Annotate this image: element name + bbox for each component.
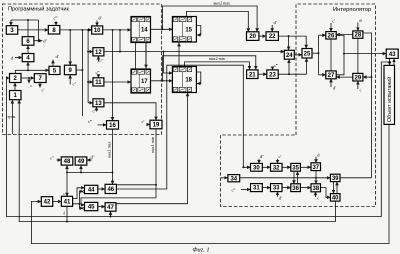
wire: block 35 to block 37 — [300, 166, 311, 168]
block 12 — [93, 48, 104, 56]
block 21 — [247, 70, 258, 79]
wire: d' input into block 27 bottom — [330, 79, 332, 87]
svg-text:13: 13 — [95, 101, 102, 107]
wire: d' input into block 10 top — [96, 21, 98, 26]
block 19 — [150, 120, 162, 129]
svg-text:17: 17 — [141, 79, 148, 85]
junctions on vertical bus — [81, 29, 89, 83]
svg-text:12: 12 — [95, 50, 102, 56]
svg-text:вых2 max: вых2 max — [214, 0, 230, 5]
block 6 — [22, 37, 34, 46]
wire: c'' input into block 9 bottom — [69, 75, 71, 85]
svg-text:c: c — [63, 192, 65, 196]
block 2 — [10, 74, 22, 83]
junction of 37 riser on 34-39 line — [315, 177, 317, 179]
wire: пуск input into block 1 — [11, 100, 13, 134]
wire: block 32 to block 35 — [282, 166, 291, 168]
svg-text:d: d — [359, 18, 362, 23]
svg-text:11: 11 — [95, 80, 102, 86]
svg-text:26: 26 — [328, 33, 335, 39]
wire: block 44 to block 46 — [98, 188, 105, 190]
block 7 — [34, 74, 46, 83]
wire: c''' input into block 31 left — [241, 189, 251, 191]
block 47 — [105, 203, 116, 212]
junction on вых1 min line — [155, 184, 157, 186]
svg-text:c‴: c‴ — [274, 63, 278, 68]
wire: d' output stub up from block 5 top — [52, 60, 54, 67]
svg-text:пуск: пуск — [6, 114, 16, 119]
wire: feedback from Объект испытаний bottom along y=243.5 to block 42 — [31, 125, 389, 244]
block 43 — [386, 49, 398, 58]
block 3 — [6, 26, 17, 35]
wire: vertical link between blocks 26 and 27 — [330, 39, 332, 71]
wire: blocks 26/27 merge to block 43 — [336, 35, 386, 75]
dashed enclosure: Программный задатчик (program setter unit) — [3, 4, 162, 135]
svg-text:Программный задатчик: Программный задатчик — [8, 6, 70, 13]
Объект испытаний box — [384, 65, 395, 124]
wire: block 21 to block 23 — [258, 73, 267, 75]
counter block 15 — [172, 17, 196, 43]
wire: d input into block 4 — [15, 57, 22, 59]
wire: block 2 up to bus and into block 5 — [15, 62, 49, 74]
wire: block 18 right self-loop — [196, 72, 200, 84]
svg-text:23: 23 — [269, 72, 276, 78]
wire: d' input into block 22 top — [271, 25, 273, 32]
block 28 — [353, 31, 363, 39]
wire: block 24 to block 25 — [294, 54, 302, 56]
svg-text:48: 48 — [64, 159, 71, 165]
wire: вых2 min lower line from block 18 top port into block 21 top — [185, 62, 250, 70]
svg-text:38: 38 — [312, 186, 319, 192]
svg-text:44: 44 — [88, 188, 95, 194]
block 32 — [271, 163, 283, 171]
svg-text:18: 18 — [185, 78, 192, 84]
svg-text:d': d' — [98, 16, 101, 21]
svg-text:Фиг. 1: Фиг. 1 — [192, 247, 209, 254]
svg-text:32: 32 — [273, 165, 280, 171]
svg-text:10: 10 — [94, 28, 101, 34]
svg-text:39: 39 — [332, 176, 339, 182]
wire: block 14 to block 15 — [151, 28, 173, 30]
wire: block 38 to block 40 — [321, 188, 331, 198]
wire: c' input into block 26 top — [330, 23, 332, 32]
wire: c'' input into block 13 bottom — [96, 107, 98, 112]
wire: block 30 to block 32 — [262, 166, 270, 168]
wire: c''' input into block 8 top — [55, 21, 57, 25]
svg-text:вых1 min: вых1 min — [150, 137, 155, 153]
svg-text:d': d' — [274, 20, 277, 25]
wire: d' input into block 33 bottom — [277, 192, 279, 197]
junctions on block 6 top loop — [27, 19, 39, 42]
svg-text:d: d — [11, 56, 14, 61]
wire: block 4 to block 6 — [27, 46, 29, 54]
svg-text:d': d' — [279, 195, 282, 200]
svg-text:47: 47 — [107, 205, 114, 211]
wire: block 15 right self-loop — [196, 26, 200, 36]
svg-text:d": d" — [91, 155, 95, 160]
svg-text:c': c' — [332, 19, 335, 24]
wire: c'' input into block 12 bottom — [97, 56, 99, 62]
wire: block 6 top loop to block 3 and d'' output — [11, 20, 42, 41]
wire: block 3 to block 8 — [18, 29, 49, 31]
junctions on link wire — [119, 29, 121, 53]
junction of 41 riser on feedback — [66, 221, 68, 223]
svg-text:41: 41 — [64, 199, 71, 205]
svg-text:33: 33 — [273, 186, 280, 192]
svg-text:30: 30 — [253, 165, 260, 171]
wire: block 31 to block 33 — [262, 187, 270, 189]
block 10 — [92, 26, 103, 34]
svg-text:40: 40 — [332, 195, 339, 201]
svg-text:34: 34 — [230, 176, 237, 182]
svg-text:31: 31 — [253, 186, 260, 192]
svg-text:35: 35 — [292, 165, 299, 171]
svg-text:c': c' — [142, 119, 145, 124]
wire: block 20 to block 22 — [259, 35, 266, 37]
wire: d input into block 37 top — [315, 157, 317, 163]
wire: feedback riser into block 42 handled; block 42 to block 41 — [53, 201, 62, 203]
wire: input into block 34 left — [221, 177, 228, 179]
wire: block 1 to block 2 — [14, 83, 16, 91]
wire: block 34 to block 39 — [240, 177, 331, 179]
svg-text:d': d' — [333, 86, 336, 91]
block 8 — [48, 26, 60, 35]
block 9 — [64, 65, 76, 75]
svg-text:29: 29 — [355, 75, 362, 81]
svg-text:Интерполятор: Интерполятор — [333, 7, 371, 13]
wire: block 17 to block 18 — [151, 80, 173, 82]
svg-text:d: d — [317, 152, 320, 157]
wire: вых1 min from block 19 down to block 45 input — [81, 129, 156, 205]
block 26 — [326, 32, 336, 40]
block 11 — [93, 78, 104, 86]
block 45 — [85, 202, 98, 210]
svg-text:c‴: c‴ — [88, 119, 92, 124]
junction on 41 lower output — [79, 203, 81, 205]
wire: c' below block 7 — [39, 83, 41, 88]
block 33 — [271, 184, 283, 192]
svg-text:c: c — [317, 195, 319, 200]
svg-text:36: 36 — [292, 186, 299, 192]
svg-text:Объект испытаний: Объект испытаний — [386, 77, 393, 122]
wire: block 10 to block 14 with tap to 16 — [103, 29, 131, 31]
svg-text:20: 20 — [249, 34, 256, 40]
svg-text:49: 49 — [78, 159, 85, 165]
junction at 47 bottom stub — [110, 216, 112, 218]
wire: cascade 15 down to 18, arrow up into 15 bottom — [178, 43, 180, 67]
svg-text:c': c' — [93, 109, 96, 114]
svg-text:d: d — [63, 212, 65, 216]
wire: block 47 output up into block 18 bottom port — [116, 93, 188, 204]
wire: block 43 to Объект испытаний (double arrows) with feedback tap along y=216.5 to blocks 47 and 2 — [7, 58, 395, 216]
svg-text:25: 25 — [304, 51, 311, 57]
counter block 14 — [131, 17, 151, 43]
junction at block 30 input corner — [242, 166, 244, 168]
wire: c input into block 38 bottom — [315, 192, 317, 197]
svg-text:вых1 max: вых1 max — [106, 142, 111, 158]
wire: c' input into block 32 top — [277, 159, 279, 164]
wire: c''' input into block 11 top — [97, 75, 99, 78]
wire: block 12 output to block 24 left with branch into block 18 left — [104, 52, 284, 73]
svg-text:19: 19 — [153, 123, 160, 129]
wire: d'' input into block 30 top — [258, 159, 260, 164]
wire: c'' input into block 48 left — [57, 159, 62, 161]
svg-text:c‴: c‴ — [54, 16, 58, 21]
wire: c input into block 16 left — [98, 124, 107, 126]
wire: block 29 to block 27 — [336, 76, 353, 78]
svg-text:24: 24 — [286, 53, 293, 59]
wire: blocks 39/40 double arrows — [334, 182, 338, 194]
wire: block 33 to block 36 — [282, 187, 291, 189]
wire: d'' input into block 49 right — [87, 159, 92, 161]
counter block 18 — [172, 67, 196, 93]
block 36 — [291, 184, 301, 192]
wire: block 25 branch to blocks 26 and 27 — [312, 35, 326, 75]
block 48 — [61, 157, 73, 165]
wire: cascade 14 down to 17 (two lines) — [136, 43, 147, 70]
junction of 9 feed on 8-10 line — [69, 29, 71, 31]
wire: d input into block 28 top — [357, 23, 359, 31]
junction on bus at block 4 riser — [27, 69, 29, 71]
junction on 2-7 wire — [28, 77, 30, 79]
svg-text:d': d' — [56, 54, 59, 59]
wire: arrow up into block 49 bottom and link to вых1 max line — [67, 165, 113, 172]
block 20 — [247, 32, 259, 41]
junction at 29 right — [371, 76, 373, 78]
svg-text:c‴: c‴ — [232, 188, 236, 193]
counter block 17 — [131, 69, 151, 93]
block 25 — [302, 49, 312, 59]
svg-text:d": d" — [43, 39, 47, 44]
svg-text:c': c' — [42, 88, 45, 93]
wire: c input into block 29 bottom — [357, 81, 359, 89]
wire: from 8-10 line down into block 9 top — [69, 30, 71, 65]
block 42 — [41, 197, 52, 207]
wire: block 13 to block 19 — [104, 103, 156, 120]
junction on 25 output — [318, 52, 320, 54]
svg-text:37: 37 — [312, 165, 319, 171]
svg-text:46: 46 — [107, 187, 114, 193]
svg-text:28: 28 — [355, 33, 362, 39]
junction below 43 — [389, 61, 391, 63]
block 31 — [251, 184, 263, 192]
dashed enclosure: Интерполятор (interpolator, L-shaped) — [221, 4, 376, 207]
svg-text:c: c — [360, 88, 362, 93]
svg-text:вых2 min: вых2 min — [209, 56, 225, 61]
block 41 — [61, 196, 72, 206]
block 37 — [311, 163, 321, 171]
block 49 — [75, 157, 87, 165]
wire: вых2 min upper line from 17-18 junction into block 21 top — [163, 56, 256, 81]
wire: block 22 output into block 24 top and block 25 top — [278, 36, 306, 50]
wire: block 41 bottom to feedback line — [66, 206, 68, 221]
wire: c' input into block 19 left — [147, 124, 151, 126]
junction on 22 output — [288, 35, 290, 37]
junction on 16 input — [103, 124, 105, 126]
svg-text:c": c" — [50, 156, 54, 161]
svg-text:42: 42 — [44, 200, 51, 206]
wire: block 8 output to vertical bus feeding 10-13 — [60, 30, 93, 116]
svg-text:14: 14 — [141, 28, 148, 34]
junction on 12 output line — [163, 51, 165, 53]
block 13 — [93, 99, 104, 107]
block 24 — [284, 50, 294, 59]
svg-text:c: c — [30, 83, 32, 88]
wire: c''' input into block 23 top — [272, 68, 274, 70]
inverting input circles on blocks 44/45 — [83, 190, 85, 209]
svg-text:c": c" — [99, 58, 103, 63]
svg-text:22: 22 — [269, 34, 276, 40]
wire: block 37 down to block 38 crossing 34-39 line — [315, 171, 317, 184]
svg-text:16: 16 — [109, 123, 116, 129]
svg-text:21: 21 — [249, 72, 256, 78]
svg-text:c": c" — [73, 82, 77, 87]
wire: block 2 to block 7 with c tap — [21, 78, 34, 83]
wire: block 11 output to block 17 left — [104, 81, 131, 83]
block 4 — [22, 54, 34, 62]
block 40 — [330, 194, 340, 202]
wire: block 23 output up into block 24 bottom and block 25 bottom — [278, 58, 306, 74]
block 1 — [10, 91, 22, 100]
wire: block 46 output up over block 18 and down into block 30 — [116, 65, 250, 189]
wire: feedback from block 40 bottom along y=221.5 to block 1 — [19, 100, 335, 222]
wire: blocks 35/36 double arrows — [294, 171, 298, 184]
junction on 26/27 merge — [343, 53, 345, 55]
junctions under 48/49 — [66, 171, 113, 173]
block 44 — [85, 185, 98, 193]
block 22 — [266, 32, 278, 41]
wire: riser between 48 and 41 with arrows into 48 and 41 — [66, 165, 68, 196]
svg-text:c‴: c‴ — [96, 70, 100, 75]
block 35 — [291, 163, 301, 171]
wire: block 45 to block 47 — [98, 206, 105, 208]
block 29 — [353, 73, 363, 81]
block 30 — [251, 163, 263, 171]
junction on 17-18 wire — [162, 80, 164, 82]
wire: block 28 to block 26 — [336, 34, 353, 36]
block 46 — [105, 184, 116, 193]
wire: block 41 outputs to 44/45 inputs — [73, 188, 85, 209]
block 16 — [107, 121, 119, 129]
wire: вых2 max from junction up and into block 20 top — [163, 6, 258, 32]
block 5 — [49, 66, 60, 74]
wire: vertical link between blocks 28 and 29 — [357, 38, 359, 73]
svg-text:15: 15 — [185, 27, 192, 33]
wire: link from 10-14 wire down to 12 output line — [119, 30, 121, 52]
junction on 10-14 wire for вых1 max tap — [112, 29, 114, 31]
wire: вых1 max from junction down into block 16 then to block 46 — [112, 30, 114, 184]
block 23 — [267, 70, 278, 79]
block 27 — [326, 71, 336, 79]
block 38 — [311, 184, 321, 192]
svg-text:d": d" — [260, 154, 264, 159]
block 34 — [228, 175, 240, 183]
junction on 23 output — [288, 73, 290, 75]
wire: block 28 right loop down into block 29 and junction from 39 — [340, 33, 372, 178]
wire: block 36 to block 38 — [300, 187, 311, 189]
svg-text:43: 43 — [389, 52, 396, 58]
svg-text:27: 27 — [328, 73, 335, 79]
svg-text:c': c' — [279, 154, 282, 159]
junction on 14-15 wire — [162, 28, 164, 30]
block 39 — [330, 174, 340, 182]
svg-text:45: 45 — [88, 205, 95, 211]
wire: block 15 top port to block 20 top — [187, 11, 249, 31]
